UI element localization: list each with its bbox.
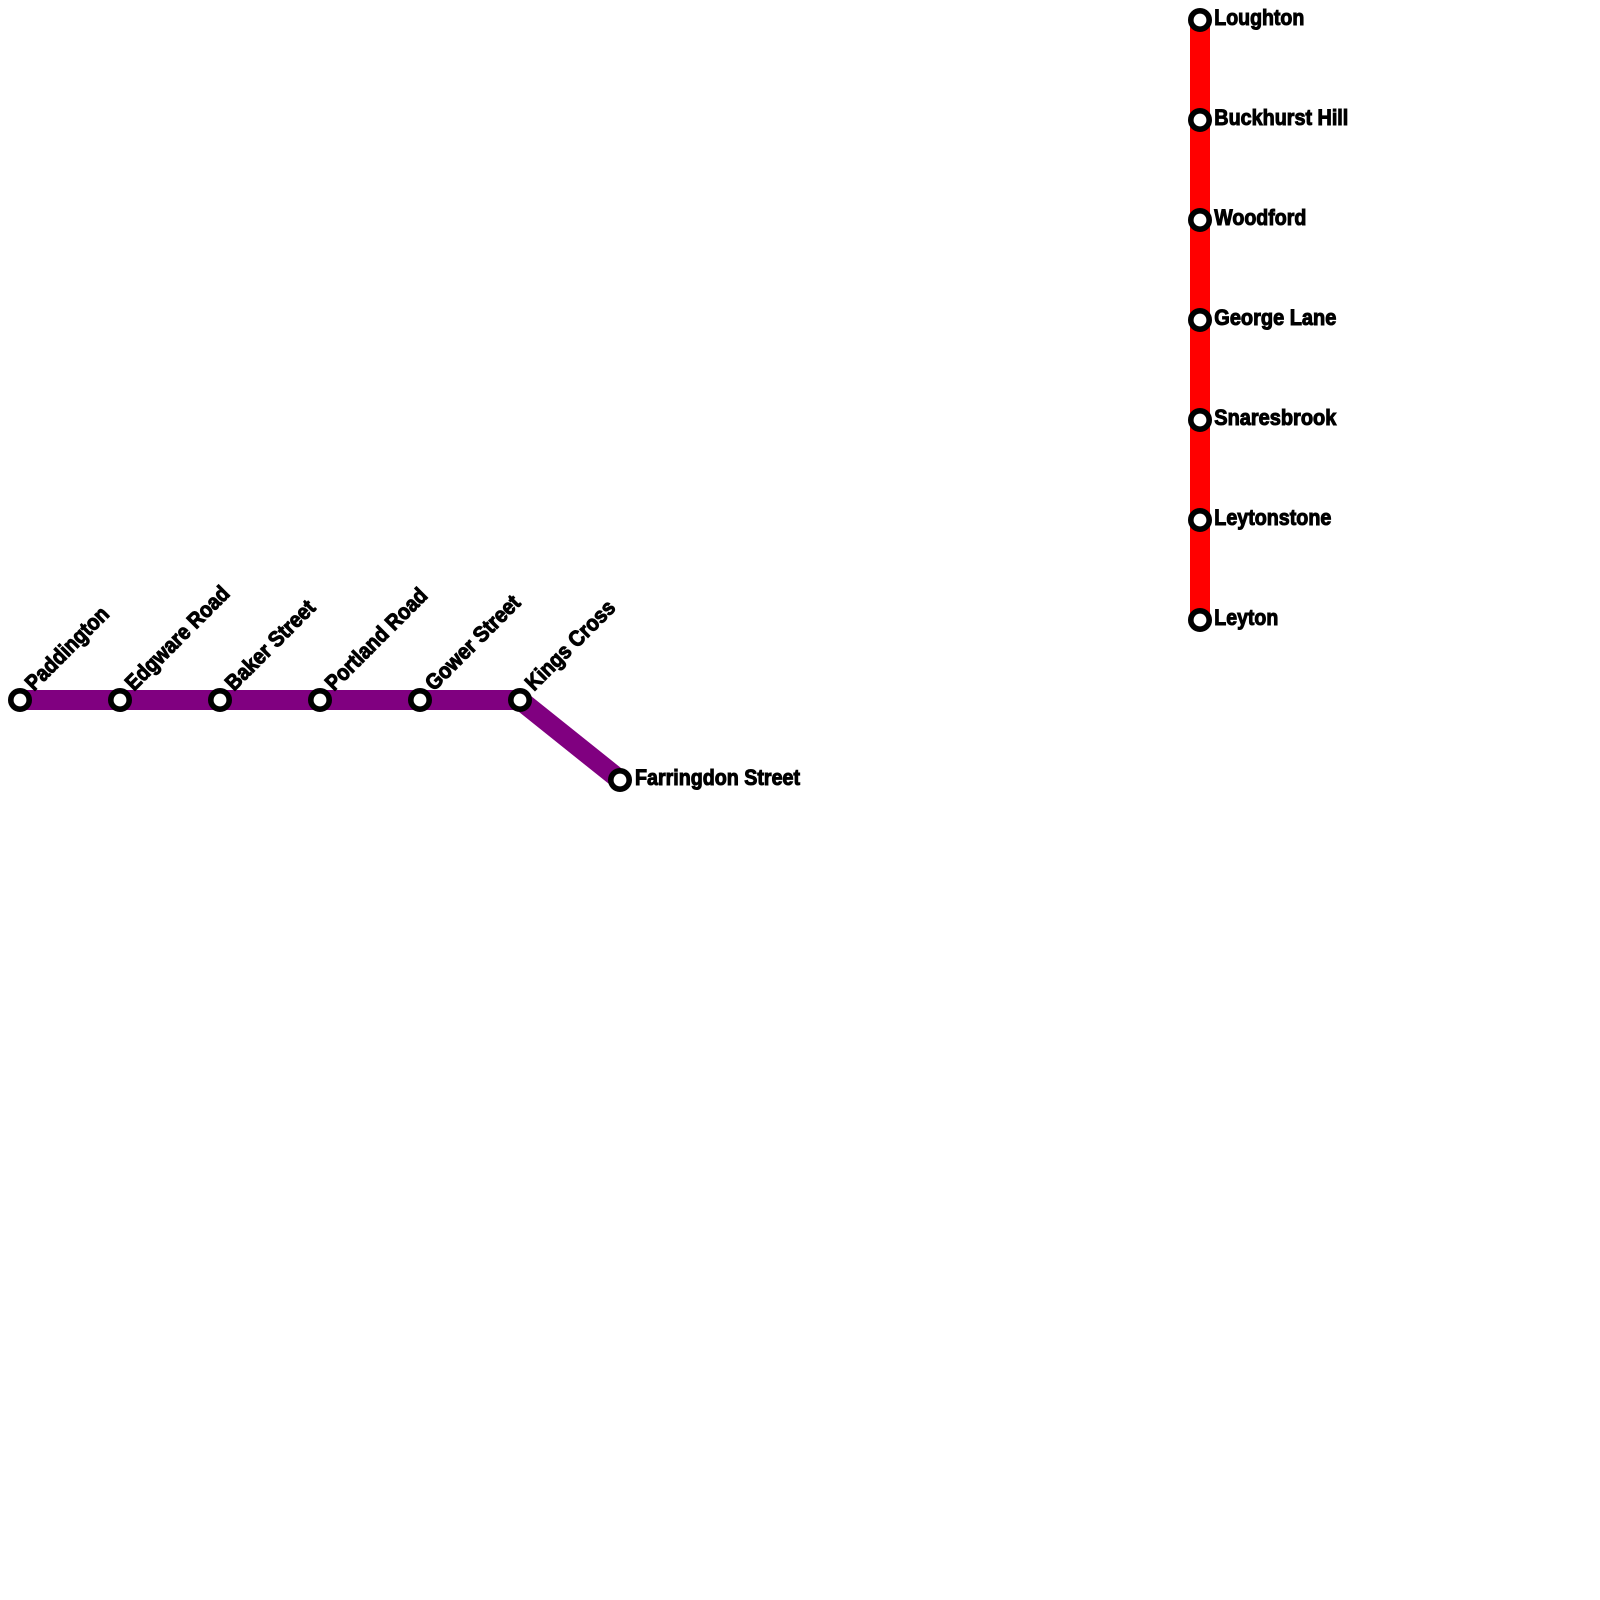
svg-text:George Lane: George Lane [1214, 305, 1336, 330]
svg-text:Leyton: Leyton [1214, 605, 1278, 630]
svg-text:Farringdon Street: Farringdon Street [635, 765, 801, 790]
svg-text:Woodford: Woodford [1214, 205, 1306, 230]
svg-text:Leytonstone: Leytonstone [1214, 505, 1331, 530]
svg-text:Buckhurst Hill: Buckhurst Hill [1214, 105, 1348, 130]
svg-text:Loughton: Loughton [1214, 5, 1304, 30]
svg-text:Snaresbrook: Snaresbrook [1214, 405, 1337, 430]
